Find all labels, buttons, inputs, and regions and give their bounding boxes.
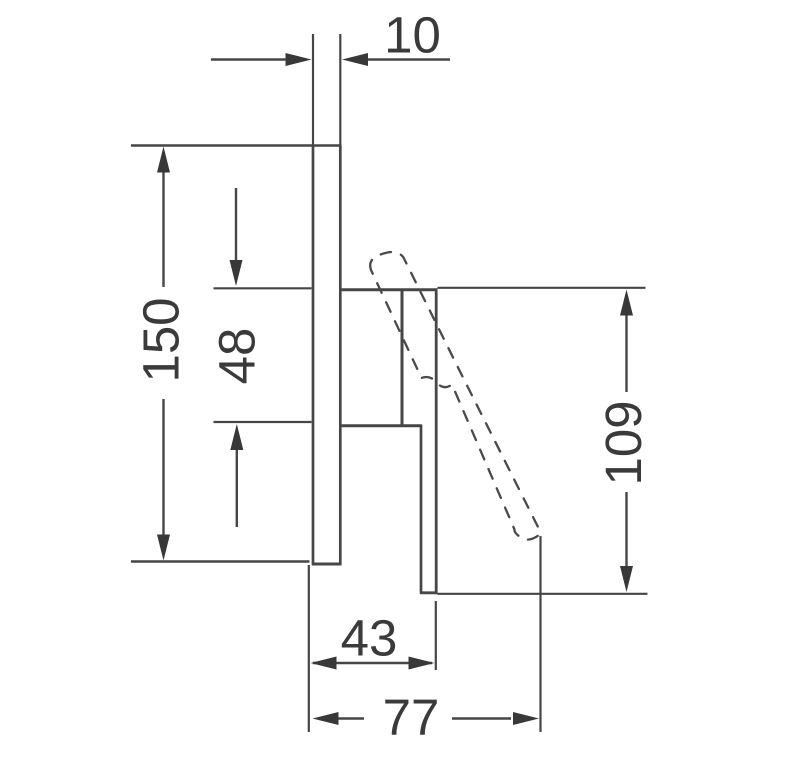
plate left edge	[312, 145, 315, 565]
arrowhead: dim 109 top	[620, 290, 633, 316]
handle lever (dashed hidden outline)	[370, 252, 540, 540]
wire: 77 dimension line right segment	[452, 717, 511, 719]
wire: 48 upper arrow stem	[235, 188, 237, 262]
wire: 150 bottom extension	[131, 560, 310, 562]
svg-text:150: 150	[133, 297, 190, 382]
wire: 48 lower arrow stem	[236, 448, 238, 527]
body step edge	[339, 424, 422, 427]
wire: top extension line left of 10 dim	[312, 34, 314, 145]
arrowhead: dim 77 right	[513, 712, 539, 725]
wire: 48 top extension	[214, 287, 312, 289]
wire: 109 bottom extension	[438, 593, 648, 595]
wire: 109 top extension	[438, 287, 646, 289]
wire: 43 right extension	[435, 601, 437, 670]
arrowhead: dim 48 lower	[230, 424, 243, 450]
svg-text:10: 10	[384, 7, 441, 64]
arrowhead: dim 150 top	[157, 147, 170, 173]
arrowhead: dim 43 right	[409, 657, 435, 670]
svg-text:48: 48	[209, 328, 266, 385]
wire: top extension line right of 10 dim	[339, 34, 341, 145]
arrowhead: dim 48 upper	[230, 260, 243, 286]
arrowhead: dim 10 right	[342, 53, 368, 66]
wire: plate top edge / 150 top extension	[131, 144, 342, 146]
body lower back vertical	[420, 425, 423, 594]
plate right edge	[339, 145, 342, 565]
arrowhead: dim 10 left	[286, 53, 312, 66]
wire: 43 dimension line	[313, 662, 432, 664]
body top edge	[339, 288, 438, 291]
wire: dim 10 right leader	[365, 58, 450, 60]
body inner vertical	[401, 289, 404, 427]
body front face	[435, 289, 438, 594]
wire: 43/77 left extension	[308, 565, 310, 732]
arrowhead: dim 43 left	[311, 657, 337, 670]
svg-text:43: 43	[341, 610, 398, 667]
wire: 109 dimension line lower segment	[625, 492, 627, 568]
arrowhead: dim 77 left	[313, 712, 339, 725]
body bottom edge	[420, 591, 438, 594]
wire: 77 right extension from handle tip	[539, 536, 541, 732]
arrowhead: dim 150 bottom	[157, 535, 170, 561]
svg-text:77: 77	[383, 689, 440, 746]
svg-text:109: 109	[595, 400, 652, 485]
arrowhead: dim 109 bottom	[620, 566, 633, 592]
wire: 77 dimension line left segment	[336, 717, 364, 719]
wire: 109 dimension line upper segment	[625, 313, 627, 392]
wire: 48 bottom extension	[214, 421, 312, 423]
wire: dim 10 left leader	[211, 58, 288, 60]
plate bottom edge	[312, 563, 342, 566]
wire: 150 dimension line lower segment	[162, 399, 164, 537]
wire: 150 dimension line upper segment	[162, 170, 164, 287]
